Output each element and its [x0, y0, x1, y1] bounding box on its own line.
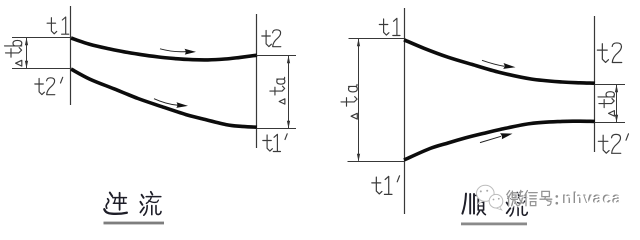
label t1 (right diagram top-left) [379, 18, 400, 35]
label Δta rotated (right diagram) [341, 85, 357, 120]
label t2 (left diagram top-right) [262, 30, 281, 47]
dimension Δtb (left diagram, left side) [12, 38, 71, 69]
wechat icon bubbles [477, 185, 503, 210]
hot fluid curve t1 to t2 (top, right diagram) [404, 40, 595, 83]
hot fluid curve t1 to t2 (top, left diagram) [71, 38, 257, 60]
left axis (left diagram) [70, 6, 72, 105]
dimension Δta (left diagram, right side) [257, 56, 297, 129]
label t1' (left diagram bottom-right) [263, 134, 287, 152]
flow arrow on top curve (left diagram) [160, 49, 196, 55]
dim arrowheads Δtb (right diagram) [615, 85, 618, 123]
label Δta rotated (left diagram) [270, 77, 285, 104]
label Δtb rotated (right diagram) [598, 92, 614, 116]
watermark 号 (hao) simplified gray strokes [541, 193, 553, 207]
right axis (right diagram) [594, 16, 596, 152]
tick at t1 level [12, 37, 71, 39]
label t2' (left diagram bottom-left) [35, 77, 63, 94]
dimension Δtb (right diagram, right side) [595, 85, 626, 123]
watermark latin text nhvaca [562, 190, 621, 208]
flow arrow on bottom curve (right diagram) [480, 133, 513, 142]
caption underline (left) [104, 222, 165, 225]
label t2 (right diagram top-right) [597, 43, 621, 63]
watermark 微 (wei) simplified gray strokes [508, 192, 524, 207]
flow arrow on bottom curve (left diagram) [154, 99, 188, 108]
right axis (left diagram) [256, 14, 258, 148]
label t1' (right diagram bottom-left) [372, 176, 400, 195]
dim arrowheads Δta (left diagram) [287, 56, 290, 129]
watermark 信 (xin) simplified gray strokes [526, 192, 538, 207]
flow arrow on top curve (right diagram) [482, 60, 516, 69]
label t1 (left diagram top-left) [47, 17, 69, 34]
caption 流 (liu) hand-drawn serif strokes [140, 192, 161, 215]
dim arrowheads Δta (right diagram) [357, 39, 360, 162]
dim line [26, 38, 28, 68]
caption 逆 (ni) hand-drawn serif strokes [104, 193, 127, 214]
caption underline (right) [461, 223, 527, 226]
dim arrowheads Δtb [25, 38, 28, 69]
label t2' (right diagram bottom-right) [598, 134, 628, 153]
caption 流 (second, right) [507, 193, 528, 216]
cold fluid curve t1' to t2' (bottom, right diagram) [404, 121, 595, 160]
cold fluid curve t2' to t1' (bottom, left diagram) [71, 69, 257, 127]
caption 顺 (shun) hand-drawn serif strokes [462, 194, 485, 215]
dimension Δta (right diagram, left side) [348, 39, 405, 162]
label Δtb rotated (left diagram) [5, 40, 22, 66]
left axis (right diagram) [404, 8, 406, 214]
watermark colon [556, 195, 559, 204]
tick at t2' level [12, 68, 71, 70]
